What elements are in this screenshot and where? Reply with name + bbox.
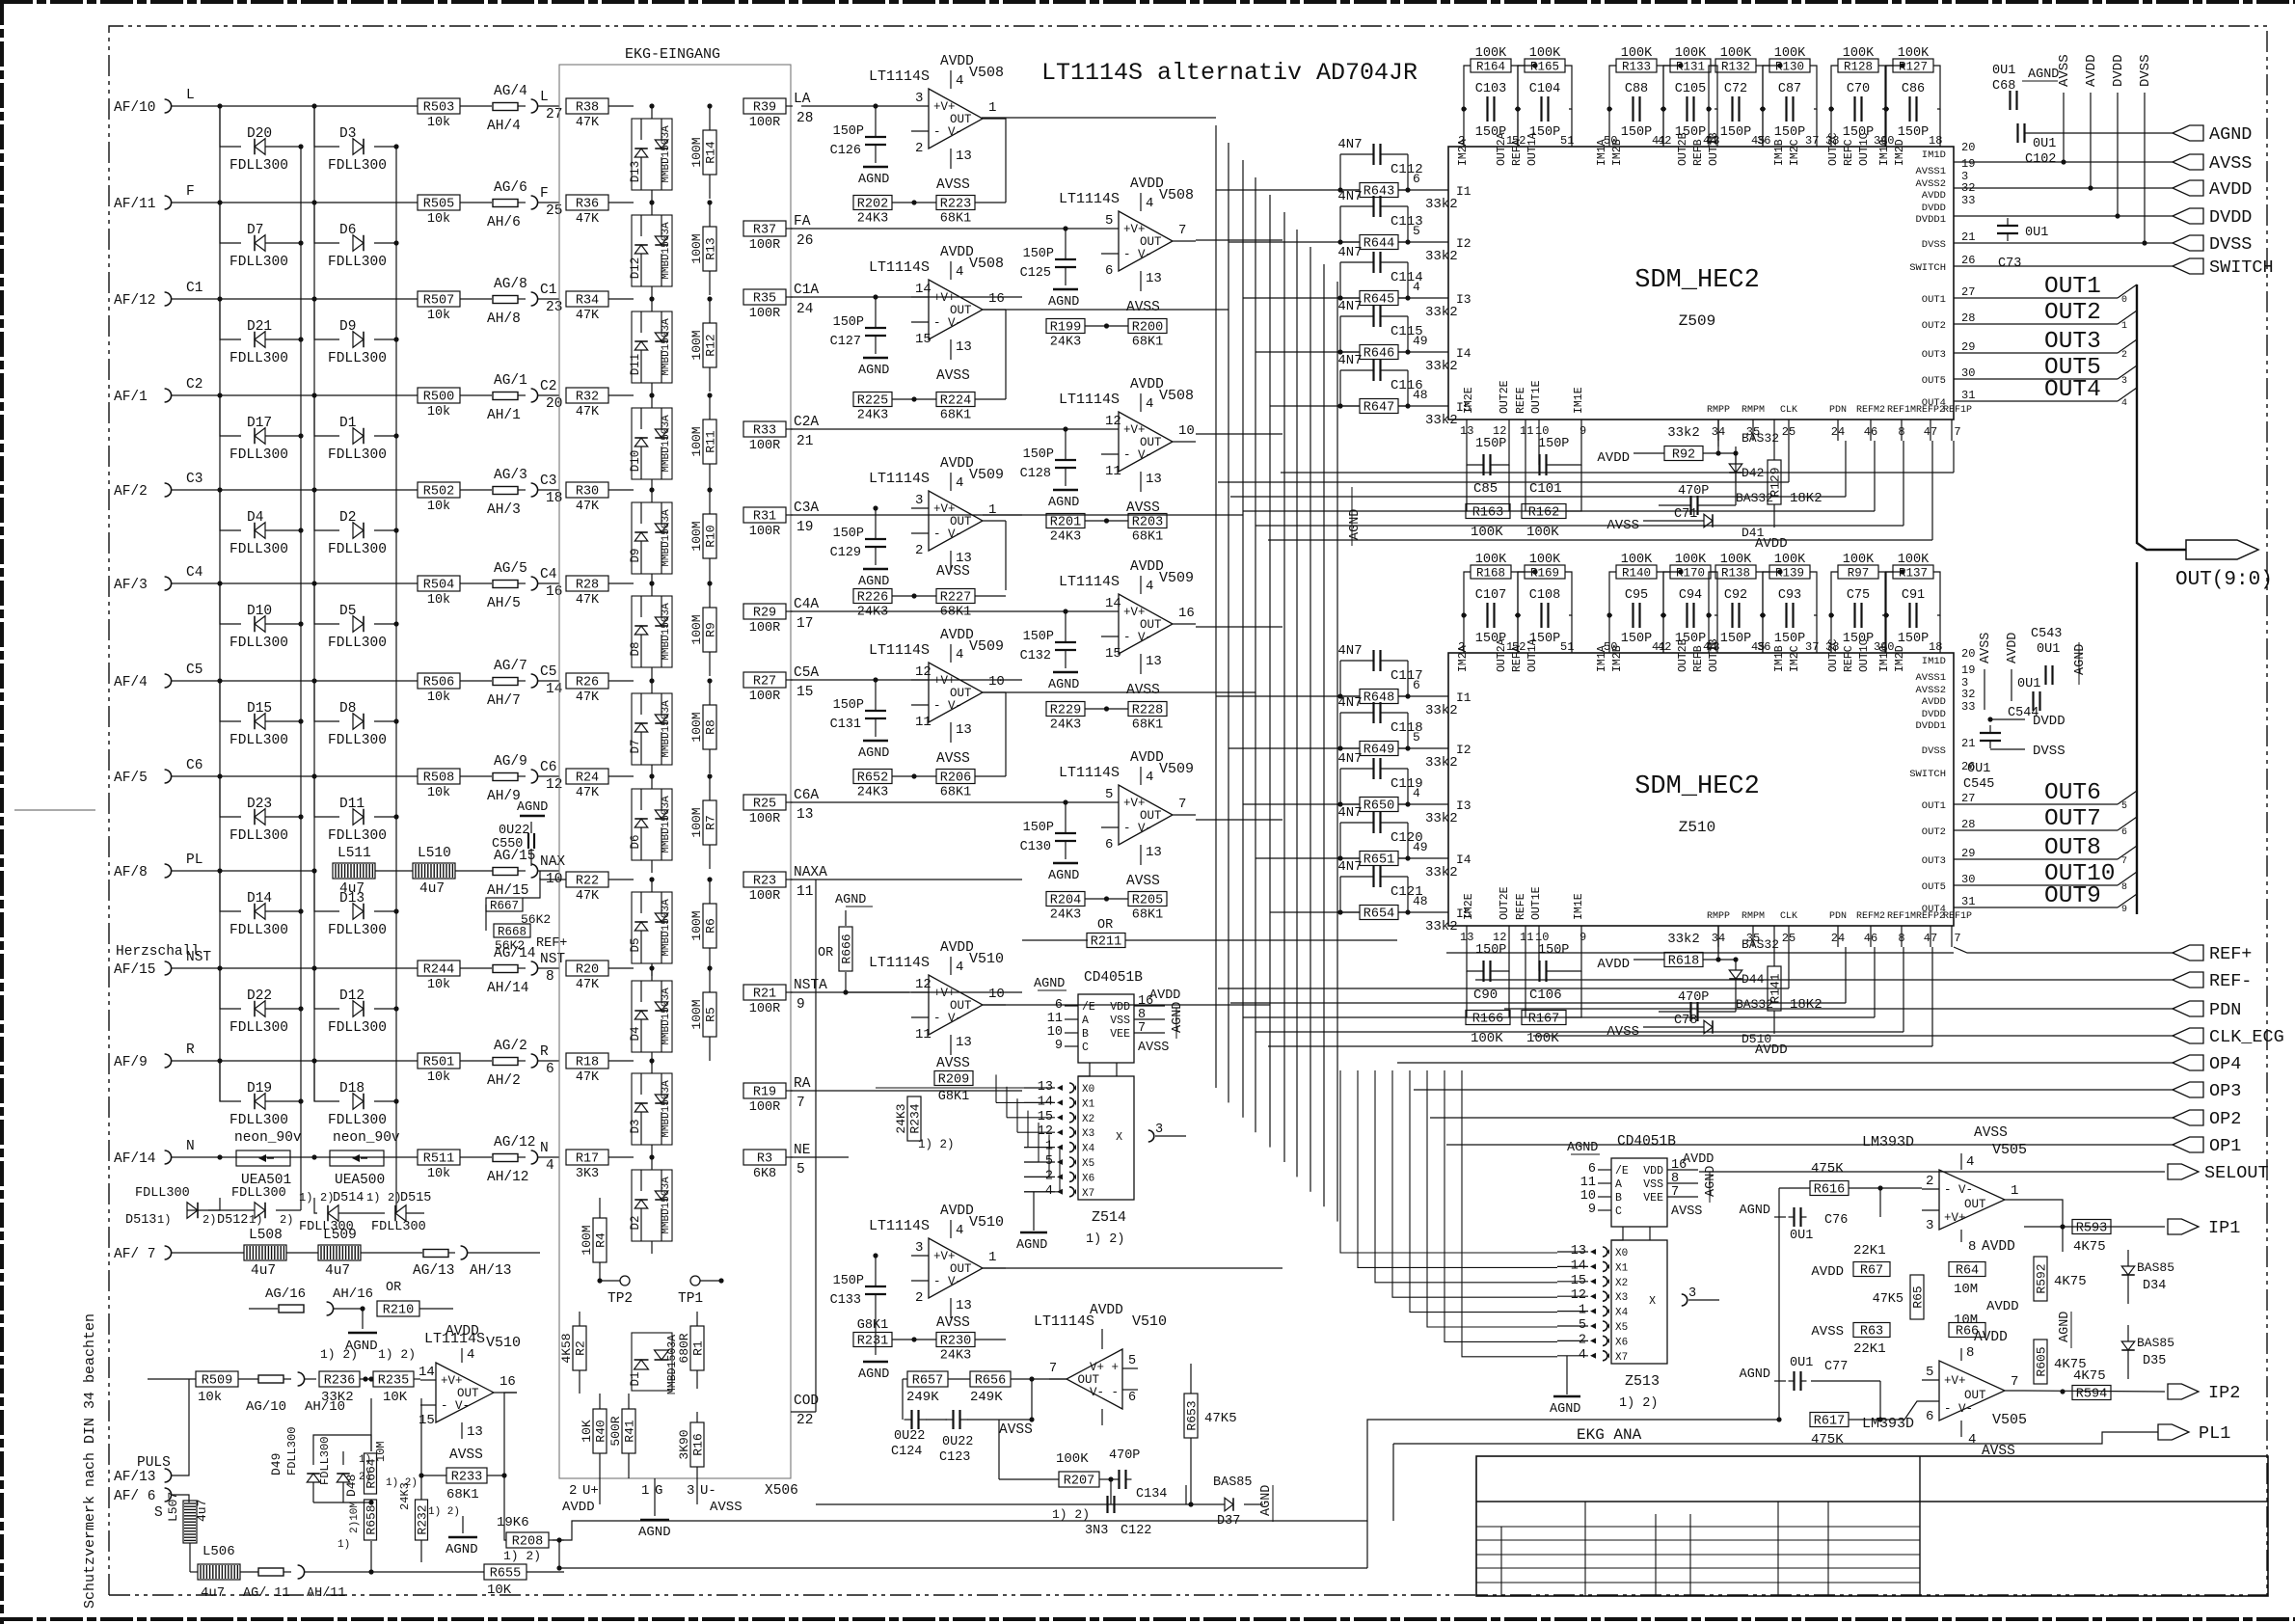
resistor R653 47K5 <box>1184 1364 1237 1507</box>
svg-text:REFM2: REFM2 <box>1856 911 1885 922</box>
svg-text:10M: 10M <box>1954 1282 1978 1297</box>
svg-text:2): 2) <box>202 1213 216 1227</box>
svg-text:2: 2 <box>1926 1174 1933 1189</box>
jumper AG/5 <box>493 561 527 588</box>
svg-text:X4: X4 <box>1615 1308 1629 1319</box>
svg-text:10M: 10M <box>374 1441 388 1462</box>
svg-text:NAX: NAX <box>540 854 565 870</box>
op-amp V508 LT1114S <box>1059 377 1196 516</box>
svg-text:11: 11 <box>915 715 931 730</box>
svg-text:4: 4 <box>956 1223 963 1238</box>
svg-text:AH/8: AH/8 <box>487 311 521 327</box>
svg-text:AVDD: AVDD <box>2006 633 2020 663</box>
svg-text:10: 10 <box>988 674 1005 690</box>
svg-text:L510: L510 <box>418 846 451 861</box>
resistor R244 10k <box>418 961 460 992</box>
svg-text:R12: R12 <box>704 334 718 356</box>
svg-text:R225: R225 <box>857 394 888 409</box>
svg-text:9: 9 <box>1579 424 1586 438</box>
diode D42 BAS32 <box>1715 420 1779 505</box>
svg-text:33k2: 33k2 <box>1425 197 1458 212</box>
svg-text:PDN: PDN <box>1829 911 1847 922</box>
op-amp V509 LT1114S <box>1059 559 1196 698</box>
resistor R39 100R <box>743 98 786 130</box>
border top ruler <box>0 0 2295 4</box>
svg-text:AF/9: AF/9 <box>114 1055 148 1070</box>
svg-text:8: 8 <box>1671 1172 1679 1186</box>
svg-text:+V+: +V+ <box>1944 1211 1966 1225</box>
diode D513 D512 FDLL300 <box>125 1186 301 1228</box>
svg-text:7: 7 <box>2011 1374 2018 1390</box>
svg-text:SDM_HEC2: SDM_HEC2 <box>1634 266 1760 295</box>
op-amp V508 LT1114S <box>869 54 1006 193</box>
diode D8 FDLL300 <box>314 681 399 748</box>
Z509 top RC network <box>1461 46 1940 147</box>
svg-text:OUT: OUT <box>1964 1389 1986 1402</box>
svg-text:100R: 100R <box>749 889 780 904</box>
svg-text:OUT2: OUT2 <box>1922 826 1946 838</box>
svg-text:LT1114S: LT1114S <box>1059 392 1120 408</box>
resistor R643 33k2 <box>1282 172 1458 212</box>
svg-text:R7: R7 <box>704 815 718 830</box>
svg-text:24K3: 24K3 <box>857 606 888 620</box>
svg-text:R224: R224 <box>940 394 971 409</box>
svg-text:4: 4 <box>1146 396 1153 412</box>
svg-text:AG/8: AG/8 <box>494 277 527 292</box>
svg-text:AH/1: AH/1 <box>487 408 521 423</box>
svg-text:2: 2 <box>569 1483 577 1499</box>
svg-text:150P: 150P <box>1023 247 1054 261</box>
wire bottom b <box>553 1420 1779 1540</box>
svg-text:33k2: 33k2 <box>1425 249 1458 264</box>
svg-text:VSS: VSS <box>1643 1178 1663 1191</box>
svg-text:13: 13 <box>1146 845 1162 860</box>
connector AF/11 node F <box>114 184 418 212</box>
svg-text:R34: R34 <box>576 294 599 309</box>
connector X506 pins U+ G U- <box>562 1478 798 1540</box>
svg-text:LT1114S: LT1114S <box>869 1218 930 1234</box>
label AVDD <box>1986 1299 2019 1314</box>
svg-text:4: 4 <box>1968 1432 1976 1448</box>
connector AH/2 pin 6 <box>487 1044 559 1089</box>
svg-text:IM1E: IM1E <box>1573 893 1585 920</box>
capacitor C73 0U1 <box>1997 218 2048 271</box>
svg-text:AVSS: AVSS <box>2057 54 2072 87</box>
svg-text:R199: R199 <box>1050 321 1081 336</box>
svg-text:10K: 10K <box>383 1390 408 1405</box>
svg-text:C132: C132 <box>1020 649 1051 663</box>
svg-text:6: 6 <box>1128 1391 1136 1405</box>
svg-text:10: 10 <box>1535 931 1549 944</box>
resistor R206 68K1 <box>936 770 975 800</box>
svg-text:AVDD: AVDD <box>1090 1303 1123 1318</box>
wire w4 <box>418 1398 423 1500</box>
svg-text:AGND: AGND <box>1016 1238 1047 1253</box>
svg-text:8: 8 <box>2121 882 2127 893</box>
svg-text:4N7: 4N7 <box>1337 245 1362 260</box>
svg-text:AF/15: AF/15 <box>114 962 156 978</box>
resistor R31 100R <box>743 507 786 539</box>
svg-text:19: 19 <box>1961 157 1975 171</box>
svg-text:X2: X2 <box>1615 1278 1628 1289</box>
svg-text:AVSS: AVSS <box>449 1448 483 1463</box>
capacitor C68 0U1 <box>1992 64 2059 110</box>
resistor R92 33k2 <box>1597 425 1738 466</box>
svg-text:V509: V509 <box>969 467 1004 483</box>
svg-text:3N3: 3N3 <box>1085 1524 1108 1538</box>
resistor R41 500R <box>608 1394 637 1478</box>
IC SDM_HEC2 Z510 <box>1448 653 1954 926</box>
svg-text:4N7: 4N7 <box>1337 751 1362 767</box>
svg-text:4: 4 <box>1146 196 1153 211</box>
svg-text:R133: R133 <box>1622 61 1651 74</box>
svg-text:V508: V508 <box>969 256 1004 272</box>
diode pair D5 MMBD1503A <box>629 877 672 976</box>
svg-text:7: 7 <box>1178 223 1186 238</box>
svg-text:R644: R644 <box>1363 237 1394 252</box>
svg-text:SELOUT: SELOUT <box>2204 1163 2269 1183</box>
svg-text:27: 27 <box>546 107 562 122</box>
svg-text:AG/4: AG/4 <box>494 84 527 99</box>
wire fb <box>892 396 1006 401</box>
resistor R505 10k <box>418 195 460 227</box>
svg-text:V508: V508 <box>1159 388 1194 404</box>
svg-text:BAS85: BAS85 <box>1213 1475 1253 1490</box>
svg-text:AVDD: AVDD <box>562 1500 595 1515</box>
svg-text:AVSS1: AVSS1 <box>1915 672 1946 684</box>
IC Z513 CD4051B control <box>1567 1134 1718 1227</box>
wire w6 <box>368 1541 373 1575</box>
svg-text:IM1C: IM1C <box>1878 139 1891 166</box>
resistor R9 100M <box>689 581 718 676</box>
node COD pin 22 <box>791 1394 819 1428</box>
svg-text:D1: D1 <box>339 416 356 431</box>
resistor R230 24K3 <box>936 1333 975 1364</box>
svg-text:1): 1) <box>337 1539 350 1551</box>
resistor R12 100M <box>689 296 718 392</box>
resistor R202 24K3 <box>853 196 892 227</box>
resistor R501 10k <box>418 1053 460 1085</box>
svg-text:TP2: TP2 <box>607 1291 633 1307</box>
svg-text:CLK: CLK <box>1780 405 1797 416</box>
capacitor C119 4N7 <box>1337 751 1422 807</box>
svg-text:R127: R127 <box>1899 61 1928 74</box>
wire C1 to jumper <box>460 298 492 300</box>
Z509 bottom-right pins <box>1707 405 1972 441</box>
svg-text:/E: /E <box>1615 1165 1629 1177</box>
svg-text:DVDD: DVDD <box>2033 714 2065 729</box>
svg-text:AVDD: AVDD <box>1982 1239 2015 1255</box>
svg-text:AF/12: AF/12 <box>114 293 156 309</box>
svg-text:C5A: C5A <box>794 665 819 681</box>
svg-text:R648: R648 <box>1363 691 1394 706</box>
svg-text:C105: C105 <box>1675 82 1706 96</box>
svg-text:REF-: REF- <box>2209 971 2252 991</box>
diode D22 FDLL300 <box>220 968 304 1036</box>
connector AF/3 node C4 <box>114 565 418 593</box>
svg-text:OUT1C: OUT1C <box>1858 638 1871 672</box>
svg-text:R22: R22 <box>576 875 599 889</box>
svg-text:FDLL300: FDLL300 <box>328 542 387 557</box>
svg-text:3: 3 <box>915 493 923 508</box>
svg-text:FDLL300: FDLL300 <box>229 733 288 748</box>
svg-text:- V-: - V- <box>1123 248 1152 261</box>
svg-text:C85: C85 <box>1473 481 1498 497</box>
IC Z514 CD4051B control <box>1034 970 1185 1063</box>
svg-text:R164: R164 <box>1476 61 1505 74</box>
svg-text:MMBD1503A: MMBD1503A <box>661 509 672 567</box>
svg-text:X5: X5 <box>1082 1158 1094 1170</box>
svg-text:IM2D: IM2D <box>1894 139 1906 166</box>
resistor R10 100M <box>689 487 718 582</box>
svg-text:3: 3 <box>1688 1286 1696 1301</box>
svg-text:11: 11 <box>915 1027 931 1042</box>
IC Z514 CD4051B mux <box>1024 1076 1186 1247</box>
svg-text:D23: D23 <box>247 797 272 812</box>
svg-text:FDLL300: FDLL300 <box>229 542 288 557</box>
resistor R507 10k <box>418 291 460 323</box>
svg-text:R208: R208 <box>512 1535 543 1550</box>
svg-text:24K3: 24K3 <box>857 786 888 800</box>
svg-text:R203: R203 <box>1132 516 1163 530</box>
svg-text:FDLL300: FDLL300 <box>229 636 288 651</box>
svg-text:- V-: - V- <box>933 699 962 713</box>
svg-text:5: 5 <box>2121 801 2127 812</box>
svg-text:21: 21 <box>1961 737 1975 750</box>
resistor R17 3K3 <box>566 1150 608 1181</box>
wire C2 to jumper <box>460 394 492 396</box>
svg-text:20: 20 <box>1961 141 1975 154</box>
svg-text:10k: 10k <box>427 500 450 514</box>
svg-text:29: 29 <box>1961 340 1975 354</box>
svg-text:30: 30 <box>1961 366 1975 380</box>
svg-text:AH/3: AH/3 <box>487 502 521 518</box>
svg-text:AG/7: AG/7 <box>494 659 527 674</box>
svg-text:7: 7 <box>1049 1362 1057 1376</box>
wire fb <box>1085 706 1128 711</box>
svg-text:R228: R228 <box>1132 704 1163 718</box>
resistor R502 10k <box>418 482 460 514</box>
flag OP4 <box>2173 1054 2241 1074</box>
inductor L508 4u7 <box>244 1228 286 1279</box>
capacitor C76 0U1 <box>1740 1204 1849 1243</box>
svg-text:AVSS: AVSS <box>936 368 970 384</box>
svg-text:AGND: AGND <box>1259 1485 1274 1516</box>
diode D10 FDLL300 <box>220 583 304 651</box>
svg-text:C2: C2 <box>540 379 556 394</box>
svg-text:33k2: 33k2 <box>1425 919 1458 934</box>
resistor R21 100R <box>743 985 786 1016</box>
svg-text:10K: 10K <box>580 1420 594 1443</box>
flag AVSS <box>1954 153 2252 174</box>
wire mesh <box>791 106 1736 1412</box>
svg-text:OUT1: OUT1 <box>2044 274 2101 300</box>
svg-text:R654: R654 <box>1363 907 1394 922</box>
svg-text:V509: V509 <box>1159 570 1194 586</box>
label AGND rot <box>2058 1312 2072 1348</box>
capacitor C133 150P <box>830 1253 890 1382</box>
svg-text:D12: D12 <box>339 988 364 1004</box>
svg-text:D34: D34 <box>2143 1279 2166 1293</box>
svg-text:4N7: 4N7 <box>1337 859 1362 875</box>
svg-text:OUT: OUT <box>1964 1198 1986 1211</box>
resistor R500 10k <box>418 388 460 420</box>
svg-text:R: R <box>540 1044 549 1060</box>
svg-text:C90: C90 <box>1473 988 1498 1003</box>
svg-text:C543: C543 <box>2031 627 2062 641</box>
border bottom ruler <box>0 1617 2295 1621</box>
svg-text:475K: 475K <box>1811 1432 1844 1448</box>
svg-text:47K: 47K <box>576 978 600 992</box>
svg-text:4N7: 4N7 <box>1337 137 1362 152</box>
svg-text:D49: D49 <box>269 1453 283 1475</box>
connector AF/12 node C1 <box>114 281 418 309</box>
wire fb <box>1085 518 1128 523</box>
Z514 neck <box>1078 1063 1117 1076</box>
svg-text:+V+: +V+ <box>933 674 956 688</box>
node NAXA pin 11 <box>786 865 827 900</box>
svg-text:D8: D8 <box>339 701 356 717</box>
diode pair D7 MMBD1503A <box>629 678 672 777</box>
svg-text:13: 13 <box>796 807 813 823</box>
svg-text:RMPP: RMPP <box>1707 911 1730 922</box>
svg-text:R168: R168 <box>1476 567 1505 581</box>
svg-text:IM2D: IM2D <box>1894 645 1906 672</box>
svg-text:C1A: C1A <box>794 283 819 298</box>
svg-text:1) 2): 1) 2) <box>378 1347 416 1362</box>
svg-text:D4: D4 <box>629 1026 642 1041</box>
node NSTA pin 9 <box>786 978 827 1013</box>
title note LT1114S alternativ AD704JR <box>1041 59 1417 87</box>
svg-text:33: 33 <box>1961 700 1975 714</box>
diode pair D12 MMBD1503A <box>629 200 672 299</box>
svg-text:49: 49 <box>1413 840 1428 854</box>
svg-text:R40: R40 <box>594 1420 608 1442</box>
wire fb <box>892 593 1006 598</box>
svg-text:AVDD: AVDD <box>1811 1264 1844 1280</box>
svg-text:I4: I4 <box>1456 346 1471 361</box>
svg-text:10k: 10k <box>427 1167 450 1181</box>
svg-text:U+: U+ <box>582 1483 599 1499</box>
svg-text:33k2: 33k2 <box>1667 932 1700 947</box>
svg-text:AVDD: AVDD <box>445 1324 479 1340</box>
svg-text:neon_90v: neon_90v <box>234 1130 302 1146</box>
diode D37 BAS85 <box>1186 1475 1263 1529</box>
flag SELOUT <box>2168 1163 2269 1183</box>
resistor R24 47K <box>566 769 608 800</box>
resistor R208 19K6 <box>497 1515 564 1563</box>
svg-text:C87: C87 <box>1778 82 1801 96</box>
svg-text:AGND: AGND <box>517 800 548 815</box>
svg-text:R235: R235 <box>378 1374 409 1389</box>
svg-text:C92: C92 <box>1724 588 1747 603</box>
connector AH/6 pin 25 <box>487 186 562 230</box>
svg-text:18: 18 <box>1929 134 1942 148</box>
svg-text:C4: C4 <box>540 567 556 582</box>
svg-text:0U1: 0U1 <box>2033 137 2056 151</box>
svg-text:LA: LA <box>794 92 811 107</box>
wire NST to jumper <box>460 967 492 969</box>
resistor R503 10k <box>418 98 460 130</box>
svg-text:LT1114S alternativ AD704JR: LT1114S alternativ AD704JR <box>1041 59 1417 87</box>
svg-text:28: 28 <box>796 111 813 126</box>
svg-text:AF/8: AF/8 <box>114 865 148 880</box>
resistor R204 24K3 <box>1046 892 1085 923</box>
svg-text:IM1D: IM1D <box>1922 656 1946 667</box>
svg-text:R202: R202 <box>857 198 888 212</box>
svg-text:AGND: AGND <box>2028 68 2059 82</box>
svg-text:D17: D17 <box>247 416 272 431</box>
svg-text:100R: 100R <box>749 812 780 826</box>
svg-text:R592: R592 <box>2035 1263 2049 1293</box>
svg-text:IM1E: IM1E <box>1573 387 1585 414</box>
svg-text:OUT1A: OUT1A <box>1526 132 1539 166</box>
svg-text:FDLL300: FDLL300 <box>135 1186 190 1201</box>
svg-text:R503: R503 <box>423 101 454 116</box>
svg-text:IM1B: IM1B <box>1773 645 1786 672</box>
diode D4 FDLL300 <box>220 490 304 557</box>
svg-text:I2: I2 <box>1456 743 1471 757</box>
svg-text:BAS32: BAS32 <box>1741 937 1779 952</box>
svg-text:R3: R3 <box>757 1152 772 1167</box>
resistor R224 68K1 <box>936 392 975 423</box>
svg-text:C78: C78 <box>1674 1014 1697 1028</box>
resistor R667 R668 56K2 <box>486 878 567 953</box>
svg-text:AGND: AGND <box>858 173 889 187</box>
svg-text:68K1: 68K1 <box>1132 336 1163 350</box>
svg-text:1): 1) <box>366 1191 380 1204</box>
svg-text:REFE: REFE <box>1515 387 1527 414</box>
svg-text:UEA500: UEA500 <box>335 1173 385 1188</box>
svg-text:1: 1 <box>2121 321 2127 332</box>
svg-text:NSTA: NSTA <box>794 978 827 993</box>
jumper AG/9 <box>493 754 527 781</box>
connector AF/9 node R <box>114 1042 418 1070</box>
svg-text:R27: R27 <box>753 675 776 690</box>
connector AF/4 node C5 <box>114 663 418 690</box>
svg-text:9: 9 <box>1055 1039 1063 1053</box>
svg-text:+V+: +V+ <box>441 1374 463 1388</box>
svg-text:R649: R649 <box>1363 744 1394 758</box>
svg-text:LT1114S: LT1114S <box>1034 1313 1094 1330</box>
wire IP1 <box>2024 1200 2165 1252</box>
svg-text:AF/14: AF/14 <box>114 1151 156 1167</box>
wire fb <box>1085 896 1128 901</box>
capacitor C112 4N7 <box>1337 137 1422 193</box>
node C5A pin 15 <box>786 665 819 700</box>
svg-text:11: 11 <box>1520 424 1533 438</box>
svg-text:+V+: +V+ <box>933 100 956 114</box>
svg-text:DVDD: DVDD <box>2209 207 2252 228</box>
svg-text:D515: D515 <box>400 1191 431 1205</box>
svg-text:4: 4 <box>1146 770 1153 785</box>
svg-text:3: 3 <box>1155 1123 1163 1137</box>
svg-text:100M: 100M <box>580 1225 594 1255</box>
connector AH/7 pin 14 <box>487 664 562 709</box>
svg-text:Z509: Z509 <box>1679 312 1715 330</box>
resistor R40 10K <box>580 1394 608 1478</box>
svg-text:7: 7 <box>2121 856 2127 867</box>
svg-text:OP2: OP2 <box>2209 1109 2241 1129</box>
resistor R4 100M <box>580 1198 608 1283</box>
svg-text:R646: R646 <box>1363 347 1394 362</box>
node NE pin 5 <box>786 1143 810 1177</box>
node LA pin 28 <box>786 92 813 126</box>
svg-text:C4: C4 <box>186 565 202 581</box>
svg-text:X7: X7 <box>1082 1188 1094 1200</box>
svg-text:28: 28 <box>1961 311 1975 325</box>
svg-text:V- -: V- - <box>1090 1386 1119 1399</box>
